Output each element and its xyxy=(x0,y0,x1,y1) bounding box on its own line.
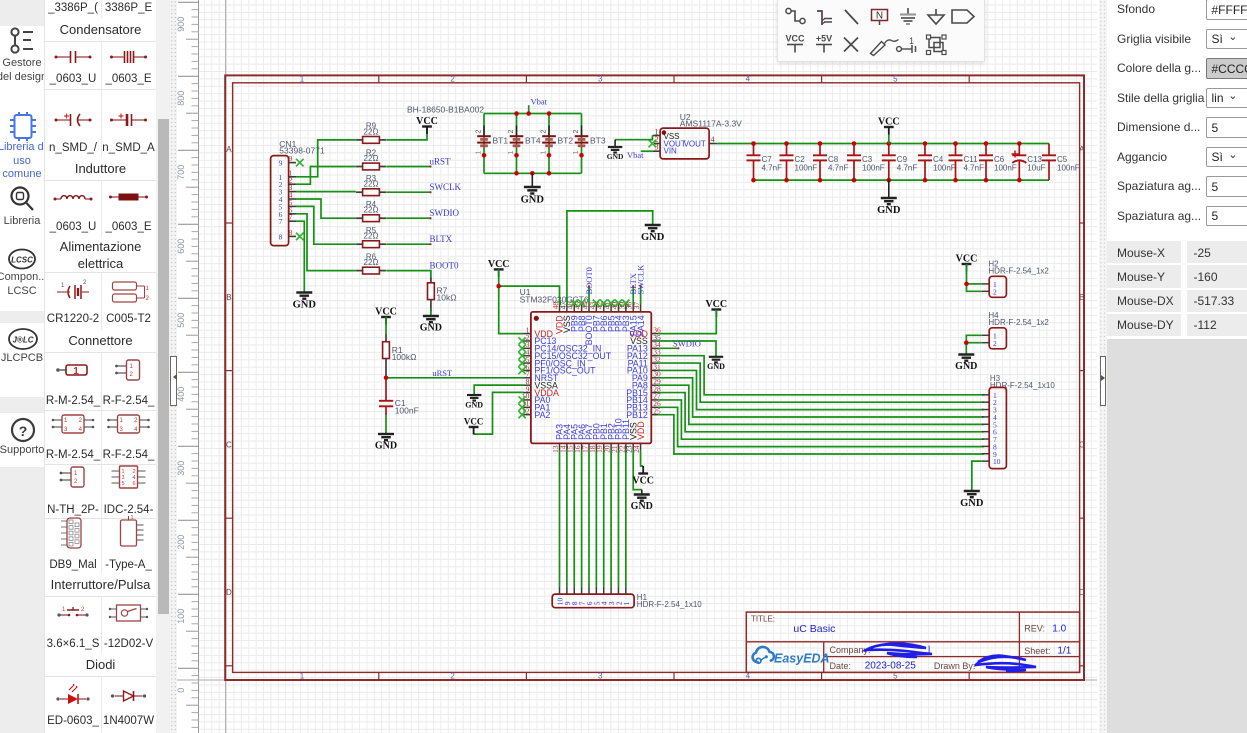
resistor R4 22R xyxy=(356,217,363,219)
H3 pin 1 xyxy=(982,394,989,396)
net flag Vbat on battery rail xyxy=(528,105,530,113)
svg-text:600: 600 xyxy=(176,239,186,254)
svg-text:LCSC: LCSC xyxy=(11,256,33,265)
wire U1 pin 31 to H3 pin 3 xyxy=(659,370,984,409)
U1 pin 2 PC13 xyxy=(524,340,531,342)
H3 pin 9 xyxy=(982,453,989,455)
svg-text:3: 3 xyxy=(64,427,68,433)
H3 pin 6 xyxy=(982,431,989,433)
capacitor C5 100nF xyxy=(1048,144,1050,156)
wire NRST net from R1 to U1 pin7 xyxy=(386,377,524,379)
H1 pin 10 xyxy=(559,587,561,594)
library item: inductor L_0603 xyxy=(54,196,93,201)
U1 pin 16 PA6 xyxy=(581,443,583,450)
U1 pin 45 PB8 xyxy=(581,305,583,312)
U2 pin1 lead xyxy=(653,135,661,137)
U1 pin 31 PA10 xyxy=(651,369,658,371)
VCC flag above R1 xyxy=(381,316,391,318)
library item: connector HDR-F-2.54 1x2 xyxy=(115,360,139,380)
toolbar icon: bus xyxy=(817,11,832,25)
toolbar icon: line xyxy=(845,10,858,24)
library item: diode 1N4007W xyxy=(111,691,146,701)
wire U1 pin 19 to H1 xyxy=(603,451,605,587)
U1 pin 9 VDDA xyxy=(524,392,531,394)
wire CN1 pin4 to R4 xyxy=(296,199,356,218)
U1 pin 23 VSS xyxy=(632,443,634,450)
wire U1 pin 33 to H3 pin 1 xyxy=(659,356,984,395)
wire R4 to net SWDIO xyxy=(386,217,430,219)
ground below R7 xyxy=(423,316,439,322)
svg-text:2: 2 xyxy=(130,372,134,378)
library item: polarized capacitor SMD xyxy=(55,114,92,127)
dangling wire end markers xyxy=(429,165,431,167)
U1 pin 21 PB10 xyxy=(617,443,619,450)
resistor R9 22R xyxy=(356,139,363,141)
U1 pin 22 PB11 xyxy=(625,443,627,450)
toolbar icon: probe xyxy=(897,36,916,53)
U1 pin 27 PB14 xyxy=(651,399,658,401)
U1 pin 1 VDD xyxy=(524,333,531,335)
company scribble xyxy=(864,644,932,658)
left icon sidebar xyxy=(0,0,44,733)
wire R9 to VCC xyxy=(386,128,427,140)
svg-text:6: 6 xyxy=(132,481,135,487)
U1 pin 39 PB3 xyxy=(625,305,627,312)
U1 pin 24 VDD xyxy=(640,443,642,450)
H1 pin 9 xyxy=(566,587,568,594)
wire U1 pin 32 to H3 pin 2 xyxy=(659,363,984,402)
wire U1 pin 26 to H3 pin 8 xyxy=(659,407,984,446)
wire battery bottom rail xyxy=(484,172,582,174)
wire U1 pin34 SWDIO stub xyxy=(659,347,679,349)
library item: capacitor C_0603 xyxy=(55,51,92,63)
U1 pin 46 PB9 xyxy=(573,305,575,312)
library item: connector HDR-M-2.54 2x2 xyxy=(52,415,95,433)
CN1 pin 2 xyxy=(289,183,296,185)
wire GND to U2 VSS xyxy=(615,136,652,140)
ground below battery pack xyxy=(524,187,541,194)
wire U1 pin23 VSS to GND xyxy=(633,451,642,490)
U1 pin 4 PC15/OSC32_OUT xyxy=(524,355,531,357)
wire R6 to net BOOT0 and R7 xyxy=(386,271,431,278)
capacitor C6 100nF xyxy=(985,144,987,156)
wire CN1 pin1 to R9 xyxy=(296,140,356,177)
wire U1 pin44 BOOT0 stub xyxy=(588,286,590,304)
svg-text:4: 4 xyxy=(134,427,138,433)
CN1 pin 1 xyxy=(289,176,296,178)
schematic canvas grid xyxy=(199,0,1098,733)
U1 pin 33 PA12 xyxy=(651,355,658,357)
wire battery top rail xyxy=(484,113,582,115)
wire U1 pin 17 to H1 xyxy=(588,451,590,587)
CN1 pin 7 xyxy=(289,220,296,222)
no-connect X on CN1 pin 9 xyxy=(296,159,304,167)
svg-text:1: 1 xyxy=(130,364,134,370)
wire U1 pin 18 to H1 xyxy=(595,451,597,587)
wire U1 pin38 stub xyxy=(632,286,634,304)
H1 pin 1 xyxy=(625,587,627,594)
svg-text:400: 400 xyxy=(176,387,186,402)
resistor R2 22R xyxy=(356,166,363,168)
floating wiring toolbar xyxy=(777,0,985,62)
library item: switch S-12D02 xyxy=(109,605,148,621)
canvas Y axis line (x=0 of sheet) xyxy=(225,0,227,733)
wire U1 pin37 stub xyxy=(640,286,642,304)
wire VCC rail (U2 VOUT to capacitor bank) xyxy=(717,143,1049,145)
ground below C1 xyxy=(378,434,394,440)
junction dots battery top rail xyxy=(514,111,519,116)
wire CN1 pin5 to R5 xyxy=(296,206,356,244)
wire VCC to U1 pin48 and pin1 xyxy=(499,269,524,333)
svg-text:2: 2 xyxy=(146,296,150,302)
svg-text:2: 2 xyxy=(81,607,85,613)
svg-text:800: 800 xyxy=(176,91,186,106)
U1 pin 11 PA1 xyxy=(524,406,531,408)
U1 pin 44 BOOT0 xyxy=(588,305,590,312)
capacitor C11 4.7nF xyxy=(955,144,957,156)
svg-text:200: 200 xyxy=(176,535,186,550)
wire U1 pin 25 to H3 pin 9 xyxy=(659,415,984,454)
U1 pin 13 PA3 xyxy=(559,443,561,450)
H3 pin 7 xyxy=(982,438,989,440)
ground below H3 xyxy=(964,491,980,497)
VCC flag for VDDA xyxy=(469,426,479,428)
wire VCC to U1 pin36 xyxy=(659,310,717,334)
wire U1 pin24 VDD to VCC flag xyxy=(641,451,644,466)
resistor R6 22R xyxy=(356,270,363,272)
wire U1 pin 21 to H1 xyxy=(617,451,619,587)
U1 pin 19 PB1 xyxy=(603,443,605,450)
svg-text:5: 5 xyxy=(122,481,125,487)
svg-text:4: 4 xyxy=(79,427,83,433)
library item: battery CR1220-2 xyxy=(57,280,89,299)
svg-text:1: 1 xyxy=(146,286,150,292)
svg-text:1: 1 xyxy=(64,418,68,424)
left gutter + scrollbar xyxy=(156,0,171,733)
U1 pin 8 VSSA xyxy=(524,384,531,386)
U1 pin 30 PA9 xyxy=(651,377,658,379)
toolbar icon: earth ground xyxy=(928,9,944,24)
capacitor C3 100nF xyxy=(853,144,855,156)
svg-text:0: 0 xyxy=(176,688,186,693)
U1 pin 34 PA13 xyxy=(651,347,658,349)
junction node NRST xyxy=(384,376,389,381)
U1 pin 5 PF0/OSC_IN xyxy=(524,362,531,364)
capacitor C4 100nF xyxy=(924,144,926,156)
wire U1 pin 13 to H1 xyxy=(559,451,561,587)
wire U1 pin 28 to H3 pin 6 xyxy=(659,393,984,432)
wire U1 pin 30 to H3 pin 4 xyxy=(659,378,984,417)
toolbar icon: VCC flag xyxy=(785,34,805,53)
capacitor C9 4.7nF xyxy=(888,144,890,156)
battery BT1 xyxy=(483,114,485,174)
right properties panel xyxy=(1099,0,1107,733)
U2 pin3 lead xyxy=(653,150,660,152)
U1 pin 6 PF1/OSC_OUT xyxy=(524,369,531,371)
library item: connector HDR-M-2.54 1x1 xyxy=(56,365,87,377)
H1 pin 8 xyxy=(573,587,575,594)
svg-text:2: 2 xyxy=(134,418,138,424)
VCC flag above capacitor bank xyxy=(888,134,890,144)
VCC flag above H2 xyxy=(962,263,972,265)
wire U1 pin 22 to H1 xyxy=(625,451,627,587)
H3 pin 4 xyxy=(982,416,989,418)
U2 pin2 lead with no-connect X xyxy=(654,143,660,145)
svg-text:1: 1 xyxy=(61,283,65,289)
ground below U1 pin23 xyxy=(641,490,643,494)
wire R3 to net SWCLK xyxy=(386,191,430,193)
U1 pin 35 VSS xyxy=(651,340,658,342)
toolbar icon: ground xyxy=(900,8,916,24)
library item: battery holder C005-T2 xyxy=(113,282,150,302)
wire U1 pin 20 to H1 xyxy=(610,451,612,587)
icon: library search xyxy=(12,188,34,211)
wire GND rail under capacitor bank xyxy=(754,179,1050,181)
capacitor C1 100nF xyxy=(385,378,387,401)
H3 pin 10 xyxy=(982,460,989,462)
U1 pin 47 VSS xyxy=(566,305,568,312)
U2 pin4 lead xyxy=(709,143,717,145)
U1 pin 26 PB13 xyxy=(651,406,658,408)
VCC flag right of U1 xyxy=(711,308,721,310)
title block frame xyxy=(746,612,1079,672)
toolbar icon: net label xyxy=(872,10,888,26)
VCC flag feeding U1 VDD pins xyxy=(494,268,504,270)
U1 pin 29 PA8 xyxy=(651,384,658,386)
ground below H4 xyxy=(958,355,974,361)
battery BT2 xyxy=(548,114,550,174)
U1 pin 37 PA14 xyxy=(640,305,642,312)
icon: LCSC xyxy=(9,250,35,269)
H3 pin 5 xyxy=(982,423,989,425)
svg-text:1: 1 xyxy=(74,471,78,477)
library item: pushbutton switch xyxy=(57,607,88,617)
wire U1 pin 16 to H1 xyxy=(581,451,583,587)
wire VCC to R1 xyxy=(385,317,387,334)
H1 pin 7 xyxy=(581,587,583,594)
wire H3 pin10 to GND xyxy=(972,461,982,490)
wire U1 pin 14 to H1 xyxy=(566,451,568,587)
H1 pin 2 xyxy=(617,587,619,594)
wire CN1 pin2 to R2 xyxy=(296,167,356,185)
library item: connector IDC-2.54 2x3 xyxy=(112,466,146,488)
U1 pin 32 PA11 xyxy=(651,362,658,364)
wire CN1 pin3 to R3 xyxy=(296,191,356,193)
sheet frame outer border xyxy=(225,75,1084,680)
wire CN1 pin7 to GND xyxy=(296,221,304,292)
junction dots battery bottom rail xyxy=(514,171,519,176)
CN1 pin 4 xyxy=(289,198,296,200)
svg-text:500: 500 xyxy=(176,313,186,328)
svg-text:J®LC: J®LC xyxy=(12,336,33,345)
ground above-right of U1 xyxy=(645,225,661,231)
H3 pin 2 xyxy=(982,401,989,403)
VCC flag above R9 xyxy=(422,125,432,127)
svg-text:2: 2 xyxy=(83,280,87,286)
VCC flag (inverted) below U1 pin24 xyxy=(638,472,648,474)
wire U1 pin 27 to H3 pin 7 xyxy=(659,400,984,439)
wire U1 pin47 VSS to GND xyxy=(567,211,653,305)
icon: design manager xyxy=(11,28,33,52)
library item: LED-0603 xyxy=(56,684,89,704)
svg-text:100: 100 xyxy=(176,609,186,624)
ground below capacitor bank xyxy=(888,180,890,197)
icon: common library (active, blue) xyxy=(10,112,36,141)
H3 pin 3 xyxy=(982,409,989,411)
U1 pin 14 PA4 xyxy=(566,443,568,450)
CN1 pin 8 xyxy=(289,235,296,237)
net flag Vbat to U2 VIN xyxy=(641,150,653,152)
toolbar icon: group/select xyxy=(927,35,947,55)
CN1 pin 3 xyxy=(289,191,296,193)
sheet frame column/row dividers and labels xyxy=(378,75,380,82)
EasyEDA logo xyxy=(753,647,830,666)
wire R2 to net uRST xyxy=(386,166,430,168)
wire U1 pin 15 to H1 xyxy=(573,451,575,587)
wire U1 pin9 VDDA to VCC xyxy=(474,392,524,434)
svg-text:3: 3 xyxy=(120,427,124,433)
svg-text:900: 900 xyxy=(176,17,186,32)
svg-text:1: 1 xyxy=(62,607,66,613)
U1 pin 42 PB6 xyxy=(603,305,605,312)
H1 pin 5 xyxy=(595,587,597,594)
no-connect X on CN1 pin 8 xyxy=(296,233,304,241)
CN1 pin 9 xyxy=(289,162,296,164)
H3 pin 8 xyxy=(982,445,989,447)
U1 pin 36 VDD xyxy=(651,333,658,335)
H1 pin 4 xyxy=(603,587,605,594)
U1 pin 40 PB4 xyxy=(617,305,619,312)
H1 pin 3 xyxy=(610,587,612,594)
wire R5 to net BLTX xyxy=(386,243,430,245)
U1 pin 15 PA5 xyxy=(573,443,575,450)
resistor R3 22R xyxy=(356,191,363,193)
ground for VSSA xyxy=(467,395,481,401)
svg-text:1: 1 xyxy=(131,515,134,521)
wire C1 to GND xyxy=(385,415,387,434)
ground below CN1 xyxy=(296,293,312,299)
capacitor C13 10uF xyxy=(1018,144,1020,156)
svg-text:700: 700 xyxy=(176,165,186,180)
canvas X axis line (y=0 of sheet) xyxy=(175,679,1097,681)
U1 pin 28 PB15 xyxy=(651,392,658,394)
toolbar icon: no connect xyxy=(844,38,858,52)
U1 pin 12 PA2 xyxy=(524,414,531,416)
H1 pin 6 xyxy=(588,587,590,594)
U1 pin 38 PA15 xyxy=(632,305,634,312)
CN1 pin 6 xyxy=(289,213,296,215)
library item: connector USB-Type-A xyxy=(121,515,144,546)
library item: ferrite bead xyxy=(109,194,148,201)
U1 pin 10 PA0 xyxy=(524,399,531,401)
library item: connector DB9_Male xyxy=(61,518,81,548)
U1 pin 43 PB7 xyxy=(595,305,597,312)
svg-text:1: 1 xyxy=(73,366,79,377)
icon: support xyxy=(12,419,34,441)
U1 pin 41 PB5 xyxy=(610,305,612,312)
wire U1 pin35 VSS to GND xyxy=(659,341,716,356)
wire H4 pins to GND xyxy=(966,335,982,354)
icon: JLCPCB xyxy=(9,329,37,349)
ground left of U2 xyxy=(608,147,622,153)
resistor R1 100k xyxy=(385,334,387,342)
wire U1 pin8 VSSA to GND xyxy=(474,385,523,394)
wire battery rail to GND xyxy=(531,173,533,186)
drawn-by scribble xyxy=(976,656,1036,671)
U1 pin 25 PB12 xyxy=(651,414,658,416)
library item: connector HDR-F-2.54 2x2 xyxy=(107,415,150,433)
wire U1 pin 29 to H3 pin 5 xyxy=(659,385,984,424)
ground right of U1 xyxy=(709,357,723,363)
svg-text:2: 2 xyxy=(79,418,83,424)
U1 pin 7 NRST xyxy=(524,377,531,379)
U1 pin 20 PB2 xyxy=(610,443,612,450)
capacitor C7 4.7nF xyxy=(753,144,755,156)
wire R7 to GND xyxy=(430,308,432,316)
toolbar icon: net port xyxy=(952,10,974,23)
U1 pin 48 VDD xyxy=(559,305,561,312)
sheet frame inner border xyxy=(233,83,1080,673)
battery BT4 xyxy=(516,114,518,174)
U1 pin 18 PB0 xyxy=(595,443,597,450)
resistor R7 10k pulldown xyxy=(430,278,432,283)
svg-text:?: ? xyxy=(19,423,28,439)
toolbar icon: wire xyxy=(786,8,805,23)
component library panel xyxy=(44,0,156,733)
capacitor C8 4.7nF xyxy=(819,144,821,156)
library item: connector CONN-TH_2P xyxy=(60,467,84,487)
library item: tantalum capacitor SMD xyxy=(110,114,147,127)
toolbar icon: +5V flag xyxy=(816,34,832,53)
resistor R5 22R xyxy=(356,243,363,245)
CN1 pin 5 xyxy=(289,205,296,207)
capacitor C2 100nF xyxy=(786,144,788,156)
library item: capacitor C_0603_E xyxy=(110,51,147,63)
U1 pin 17 PA7 xyxy=(588,443,590,450)
wire VCC to H2 pins xyxy=(967,264,982,291)
svg-text:1: 1 xyxy=(120,418,124,424)
U1 pin 3 PC14/OSC32_IN xyxy=(524,347,531,349)
battery BT3 xyxy=(581,114,583,174)
svg-text:300: 300 xyxy=(176,461,186,476)
svg-text:2: 2 xyxy=(74,479,78,485)
toolbar icon: pen / draw xyxy=(871,40,899,56)
wire CN1 pin6 to R6 xyxy=(296,214,356,271)
